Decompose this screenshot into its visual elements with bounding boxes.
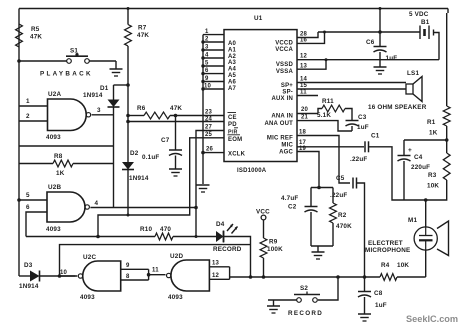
- wire D1 top: [114, 84, 129, 86]
- svg-text:9: 9: [205, 76, 209, 82]
- svg-text:S1: S1: [70, 48, 78, 55]
- wire 5V top rail: [19, 8, 448, 10]
- wire U2B pin5: [19, 192, 47, 200]
- svg-text:11: 11: [300, 90, 307, 96]
- node R9 junction: [262, 275, 266, 279]
- wire pin28 VCCD: [297, 32, 318, 38]
- capacitor C2: [281, 188, 318, 247]
- wire M1 top lead: [425, 200, 427, 227]
- svg-text:D3: D3: [24, 262, 33, 269]
- svg-text:A5: A5: [228, 73, 237, 79]
- svg-text:R6: R6: [137, 105, 146, 112]
- label ELECTRET MICROPHONE: [365, 240, 410, 254]
- op-amp U2D (NAND 4093): [167, 253, 210, 301]
- wire U2C pin9: [121, 263, 149, 269]
- resistor R3: [427, 153, 450, 190]
- svg-text:5: 5: [205, 61, 209, 67]
- svg-text:U2B: U2B: [48, 184, 61, 191]
- svg-text:15: 15: [300, 83, 308, 89]
- wire R4 to M1: [397, 276, 426, 278]
- svg-text:U2D: U2D: [170, 253, 183, 260]
- wire top-rail drop to VCC rail: [379, 7, 382, 32]
- svg-text:R11: R11: [322, 98, 334, 105]
- wire pin18 MIC REF: [297, 130, 350, 184]
- wire C4 top rail: [404, 139, 447, 141]
- capacitor C8: [358, 277, 387, 321]
- op-amp U2C (NAND 4093): [78, 254, 120, 301]
- ground S2: [267, 300, 280, 313]
- svg-text:10K: 10K: [427, 183, 439, 190]
- svg-text:SP+: SP+: [281, 83, 293, 89]
- wire D3 to U2C: [40, 275, 76, 277]
- svg-text:D1: D1: [100, 85, 109, 92]
- node pin13 riser junction: [325, 58, 328, 61]
- wire S1 row: [19, 60, 67, 62]
- wire VSS rail: [326, 59, 439, 61]
- svg-text:470: 470: [160, 226, 171, 233]
- U1 left pin labels: [205, 41, 246, 158]
- node D4/rail junction: [249, 275, 253, 279]
- svg-text:11: 11: [152, 268, 159, 274]
- wire D1 cathode vertical: [113, 107, 115, 208]
- capacitor C5: [330, 175, 365, 277]
- svg-text:ANA OUT: ANA OUT: [264, 121, 293, 127]
- capacitor C4 220uF: [398, 140, 431, 200]
- node pin16 riser junction: [323, 31, 326, 34]
- svg-text:R5: R5: [31, 26, 40, 33]
- svg-text:1N914: 1N914: [129, 175, 149, 182]
- wire R1 to R3: [446, 126, 448, 153]
- svg-text:B1: B1: [421, 19, 430, 26]
- resistor R2: [330, 188, 353, 247]
- resistor R10: [140, 226, 173, 240]
- ground address/XCLK: [197, 185, 210, 192]
- svg-text:R7: R7: [138, 25, 147, 32]
- switch S2 RECORD: [288, 285, 323, 317]
- wire pin20 ANA IN: [297, 107, 318, 114]
- wire R10 line: [26, 236, 155, 238]
- wire top rail right drop: [447, 9, 449, 14]
- node XCLK junction: [201, 151, 205, 155]
- wire R10 to D4: [173, 236, 216, 238]
- svg-text:10: 10: [204, 84, 212, 90]
- svg-text:R3: R3: [428, 172, 437, 179]
- wire U2B pin4 output: [90, 200, 196, 208]
- svg-text:14: 14: [300, 77, 308, 83]
- wire pin11 AUX IN stub: [297, 90, 318, 96]
- svg-text:1N914: 1N914: [19, 283, 39, 290]
- svg-text:3: 3: [205, 45, 209, 51]
- op-amp U2A (NAND 4093): [46, 91, 91, 141]
- svg-text:A1: A1: [228, 47, 237, 53]
- wire pin12 VSSD: [297, 54, 326, 60]
- svg-text:C2: C2: [288, 204, 297, 211]
- svg-text:19: 19: [299, 146, 307, 152]
- svg-text:C6: C6: [366, 39, 375, 46]
- svg-text:10: 10: [60, 270, 68, 276]
- svg-text:1uF: 1uF: [357, 124, 369, 131]
- wire XCLK pin26 stub: [203, 152, 224, 154]
- svg-text:12: 12: [212, 273, 220, 279]
- svg-text:4093: 4093: [80, 294, 95, 301]
- electret microphone M1: [408, 217, 449, 256]
- svg-text:5 VDC: 5 VDC: [409, 11, 429, 18]
- svg-text:470K: 470K: [336, 223, 352, 230]
- svg-text:VCCD: VCCD: [275, 41, 293, 47]
- wire C2/R2 bottom rail: [311, 245, 333, 247]
- svg-text:U1: U1: [254, 15, 263, 22]
- wire M1 bottom lead: [425, 250, 427, 277]
- wire U2A pin1: [19, 98, 48, 106]
- svg-text:C5: C5: [336, 175, 345, 182]
- svg-text:26: 26: [206, 147, 214, 153]
- resistor R4: [380, 262, 409, 280]
- resistor R9: [260, 220, 283, 277]
- svg-text:VSSA: VSSA: [276, 69, 294, 75]
- wire P/R pin27 line: [196, 131, 224, 237]
- svg-text:1N914: 1N914: [83, 92, 103, 99]
- wire pin14 SP+: [297, 77, 406, 83]
- svg-text:D4: D4: [216, 221, 225, 228]
- wire pin15 SP-: [297, 83, 406, 89]
- node S2 branch junction: [336, 275, 340, 279]
- wire R3 bottom corner: [404, 180, 447, 200]
- wire address pins A0-A7 ground ladder: [201, 29, 224, 184]
- svg-text:6: 6: [26, 204, 30, 211]
- svg-text:.22uF: .22uF: [350, 156, 367, 163]
- node AGC junction: [317, 186, 321, 190]
- U1 right pin labels: [264, 41, 293, 156]
- resistor R5: [16, 24, 43, 47]
- wire to R1: [446, 13, 448, 106]
- node C6 top junction: [378, 30, 382, 34]
- svg-text:8: 8: [126, 274, 130, 280]
- node C5/C8 junction: [363, 275, 367, 279]
- svg-text:S2: S2: [300, 285, 308, 292]
- svg-text:4093: 4093: [46, 134, 61, 141]
- svg-text:AUX IN: AUX IN: [271, 96, 293, 102]
- svg-text:R1: R1: [427, 119, 436, 126]
- wire S2 left lead: [268, 299, 297, 301]
- wire D4 to record node: [224, 237, 251, 278]
- svg-text:MICROPHONE: MICROPHONE: [365, 247, 410, 254]
- capacitor C6: [366, 32, 397, 74]
- wire R7 to D2 vertical: [127, 46, 129, 162]
- svg-text:VCC: VCC: [256, 209, 270, 216]
- svg-text:A0: A0: [228, 41, 237, 47]
- svg-text:1K: 1K: [429, 130, 438, 137]
- wire D2 cathode vertical: [127, 170, 129, 216]
- op-amp U2B (NAND 4093): [46, 184, 89, 233]
- wire U2D input bracket: [229, 267, 231, 280]
- svg-text:ELECTRET: ELECTRET: [368, 240, 403, 247]
- node D2/EOM-line junction: [127, 214, 130, 217]
- svg-text:+: +: [408, 147, 412, 154]
- svg-text:1uF: 1uF: [386, 55, 398, 62]
- svg-text:3: 3: [97, 107, 101, 114]
- node pin11 junction: [147, 273, 151, 277]
- svg-text:C7: C7: [161, 137, 170, 144]
- svg-text:18: 18: [299, 130, 307, 136]
- ground after S1: [90, 61, 123, 76]
- svg-text:2: 2: [205, 37, 209, 43]
- svg-text:U2C: U2C: [83, 254, 96, 261]
- svg-text:47K: 47K: [137, 32, 149, 39]
- wire VCC rail to battery: [318, 31, 420, 33]
- svg-text:C1: C1: [371, 133, 380, 140]
- svg-text:R10: R10: [140, 226, 152, 233]
- svg-text:C3: C3: [358, 114, 367, 121]
- ground C2/R2: [312, 246, 325, 259]
- wire U2B pin6: [26, 204, 47, 237]
- svg-text:4: 4: [95, 200, 99, 207]
- svg-text:ANA IN: ANA IN: [271, 114, 293, 120]
- svg-text:4093: 4093: [46, 226, 61, 233]
- label 16 OHM SPEAKER: [368, 104, 427, 111]
- wire CE line pin23: [128, 115, 224, 117]
- svg-text:1K: 1K: [56, 170, 65, 177]
- svg-text:M1: M1: [408, 217, 417, 224]
- svg-text:AGC: AGC: [279, 150, 293, 156]
- wire pin16 VCCA: [297, 32, 325, 44]
- wire U2C input bracket: [148, 269, 150, 280]
- svg-text:16 OHM SPEAKER: 16 OHM SPEAKER: [368, 104, 427, 111]
- svg-text:6: 6: [205, 68, 209, 74]
- svg-text:5: 5: [26, 192, 30, 199]
- svg-text:EOM: EOM: [228, 137, 242, 143]
- svg-text:21: 21: [301, 115, 309, 121]
- svg-text:220uF: 220uF: [411, 164, 430, 171]
- svg-text:23: 23: [205, 110, 213, 116]
- svg-text:R2: R2: [338, 212, 347, 219]
- op-amp U1 ISD1000A body: [224, 15, 297, 174]
- wire D3 net to record node: [60, 245, 251, 276]
- switch S1 PLAYBACK: [40, 48, 93, 78]
- svg-text:VCCA: VCCA: [275, 47, 293, 53]
- svg-text:24: 24: [205, 116, 213, 122]
- wire U2A pin3 output: [92, 107, 114, 115]
- svg-text:MIC REF: MIC REF: [267, 136, 293, 142]
- wire EOM pin25 line: [98, 138, 224, 237]
- svg-text:CE: CE: [228, 115, 237, 121]
- wire C2/R2 top rail: [311, 187, 333, 189]
- wire S2 branch: [318, 277, 338, 300]
- svg-text:C4: C4: [414, 154, 423, 161]
- capacitor C1: [350, 133, 404, 201]
- wire U2D pin11 output: [149, 268, 166, 275]
- svg-text:25: 25: [205, 132, 213, 138]
- wire left vertical (R5/S1/U2A-U2B input net): [18, 9, 20, 277]
- svg-text:PLAYBACK: PLAYBACK: [40, 71, 93, 78]
- diode D4 LED RECORD: [213, 221, 242, 253]
- svg-text:PD: PD: [228, 122, 237, 128]
- svg-text:47K: 47K: [30, 34, 42, 41]
- node P/R - R10 line junction: [195, 235, 198, 238]
- wire U2D pin13: [209, 261, 229, 267]
- svg-text:27: 27: [205, 125, 213, 131]
- node R7 top: [127, 7, 130, 10]
- node U2B pin5 junction: [17, 198, 21, 202]
- resistor R1: [427, 106, 450, 137]
- terminal VCC: [256, 209, 270, 220]
- wire PD line pin24: [128, 121, 224, 123]
- svg-text:SeekIC.com: SeekIC.com: [406, 314, 458, 324]
- node D3 net junction: [58, 274, 62, 278]
- svg-text:10K: 10K: [397, 262, 409, 269]
- capacitor C3: [346, 114, 369, 131]
- svg-text:C8: C8: [374, 290, 383, 297]
- node M1 top junction: [424, 198, 428, 202]
- svg-text:LS1: LS1: [407, 70, 419, 77]
- svg-text:RECORD: RECORD: [288, 310, 323, 317]
- node D1/R7 junction: [126, 83, 130, 87]
- speaker LS1: [406, 70, 422, 102]
- node EOM-line / R10-line junction: [96, 235, 100, 239]
- svg-text:13: 13: [300, 63, 308, 69]
- wire pin19 AGC: [297, 146, 319, 188]
- node PD/R7 junction: [126, 120, 130, 124]
- battery B1 5VDC: [409, 11, 434, 39]
- diode D2 1N914: [122, 150, 149, 182]
- svg-text:RECORD: RECORD: [213, 246, 242, 253]
- svg-text:XCLK: XCLK: [228, 152, 246, 158]
- wire U2C pin8: [121, 274, 149, 280]
- resistor R6: [137, 105, 182, 119]
- svg-text:VSSD: VSSD: [276, 62, 294, 68]
- svg-text:0.1uF: 0.1uF: [142, 154, 159, 161]
- node P/R - U2B output junction: [194, 206, 198, 210]
- svg-text:U2A: U2A: [48, 91, 61, 98]
- wire U2A pin2: [19, 113, 48, 121]
- svg-text:4.7uF: 4.7uF: [281, 195, 298, 202]
- wire U2A feedback rung: [19, 145, 114, 147]
- svg-text:47K: 47K: [170, 105, 182, 112]
- svg-text:13: 13: [212, 261, 220, 267]
- svg-text:16: 16: [300, 38, 308, 44]
- svg-text:4: 4: [205, 53, 209, 59]
- wire pin17 MIC: [297, 140, 364, 147]
- node R1/C4 junction: [445, 138, 449, 142]
- svg-text:1uF: 1uF: [375, 302, 387, 309]
- svg-text:A4: A4: [228, 67, 237, 73]
- resistor R7: [125, 9, 150, 47]
- svg-text:R4: R4: [381, 262, 390, 269]
- svg-text:1: 1: [26, 98, 30, 105]
- wire bottom record rail: [230, 276, 380, 278]
- diode D3 1N914: [19, 262, 40, 290]
- node CE/R7 junction: [126, 114, 130, 118]
- wire U2C pin10 output: [60, 270, 78, 276]
- svg-text:R9: R9: [269, 239, 278, 246]
- svg-text:9: 9: [126, 263, 130, 269]
- svg-text:ISD1000A: ISD1000A: [237, 168, 267, 174]
- resistor R8: [19, 153, 114, 177]
- svg-text:MIC: MIC: [281, 143, 293, 149]
- svg-text:2: 2: [26, 113, 30, 120]
- resistor R11: [317, 98, 352, 121]
- svg-text:A3: A3: [228, 60, 237, 66]
- svg-text:5.1K: 5.1K: [317, 112, 331, 119]
- svg-text:SP-: SP-: [282, 90, 293, 96]
- watermark: [406, 314, 458, 324]
- wire battery negative leg: [434, 33, 440, 60]
- svg-text:20: 20: [301, 107, 309, 113]
- svg-text:D2: D2: [130, 150, 139, 157]
- svg-text:R8: R8: [54, 153, 63, 160]
- svg-text:A2: A2: [228, 54, 237, 60]
- svg-text:1: 1: [205, 29, 209, 35]
- svg-text:12: 12: [300, 54, 308, 60]
- wire pin21 ANA OUT: [297, 115, 352, 132]
- svg-text:4093: 4093: [168, 294, 183, 301]
- diode D1 1N914: [83, 85, 120, 107]
- capacitor C7: [142, 114, 182, 176]
- wire pin13 VSSA: [297, 60, 326, 70]
- node R5/S1 junction: [17, 59, 21, 63]
- svg-text:100K: 100K: [267, 246, 283, 253]
- svg-text:A7: A7: [228, 86, 237, 92]
- wire U2D pin12: [209, 273, 229, 279]
- svg-text:A6: A6: [228, 79, 237, 85]
